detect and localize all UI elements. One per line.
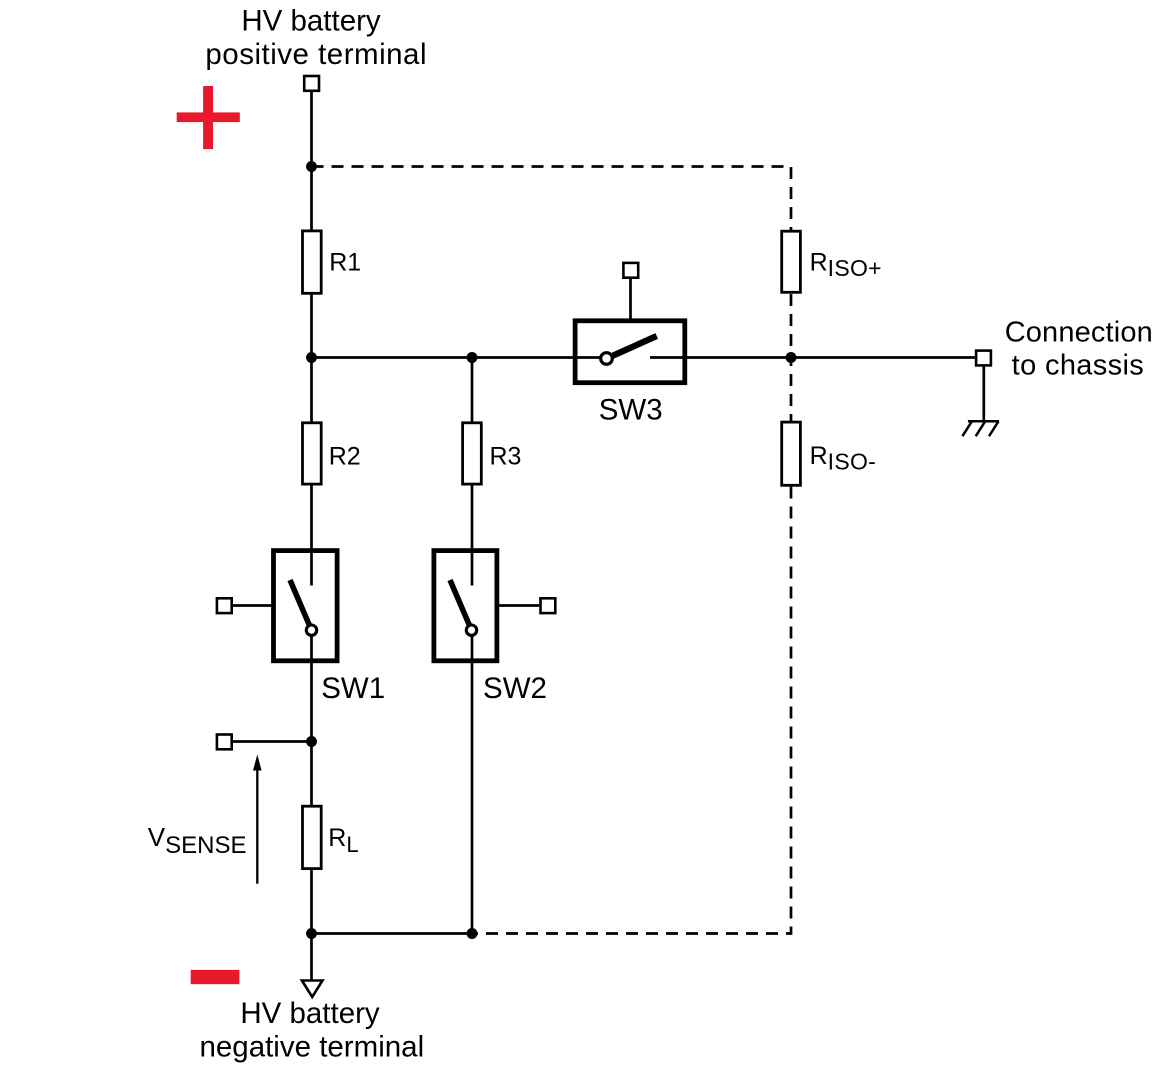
wire: SW2 movable contact to bottom rail <box>471 637 474 934</box>
minus symbol (red) <box>191 970 240 984</box>
switch SW1 box <box>274 551 338 661</box>
wire: SW1 movable contact to RL <box>310 637 313 807</box>
svg-text:SW3: SW3 <box>599 393 663 426</box>
switch SW1 contact circle <box>306 625 316 635</box>
negative terminal arrow (open triangle) <box>302 981 323 997</box>
wire: dashed RISO- to bottom rail <box>472 487 791 934</box>
resistor R1 <box>303 231 322 293</box>
Vsense arrow <box>253 755 262 884</box>
svg-text:SW1: SW1 <box>321 672 385 705</box>
resistor RL <box>303 806 322 868</box>
wire: RL to negative terminal arrow <box>310 869 313 981</box>
wire: R3 to SW2 fixed contact <box>471 485 474 586</box>
svg-text:to chassis: to chassis <box>1012 350 1144 382</box>
junction node: positive rail / RISO+ branch <box>306 161 317 172</box>
switch SW3 box <box>575 321 685 383</box>
wire: main horizontal rail left of SW3 <box>312 356 601 359</box>
svg-text:R3: R3 <box>490 442 522 470</box>
label: HV battery positive terminal <box>205 5 427 72</box>
label: Connection to chassis <box>1005 317 1153 382</box>
wire: node B to R3 <box>471 358 474 423</box>
wire: chassis terminal to ground <box>982 366 985 421</box>
wire: SW3 control stub <box>629 278 632 318</box>
wire: positive terminal to R1 <box>310 92 313 230</box>
svg-text:R2: R2 <box>329 442 361 470</box>
svg-text:R1: R1 <box>329 249 361 277</box>
svg-text:Connection: Connection <box>1005 317 1153 349</box>
wire: dashed isolation path top <box>312 167 792 231</box>
switch SW1 lever <box>290 580 310 626</box>
label: HV battery negative terminal <box>199 997 424 1064</box>
switch SW3 contact circle <box>601 353 613 365</box>
terminal square: SW2 control <box>541 598 556 613</box>
switch SW2 box <box>434 551 497 661</box>
switch SW2 lever <box>450 580 470 626</box>
resistor R3 <box>463 423 482 484</box>
svg-text:positive terminal: positive terminal <box>205 38 427 71</box>
svg-text:RISO+: RISO+ <box>810 249 882 282</box>
switch SW2 contact circle <box>466 625 476 635</box>
resistor RISO+ <box>782 231 801 292</box>
junction node: bottom rail SW2 <box>467 928 478 939</box>
wire: R2 to SW1 fixed contact <box>310 485 313 586</box>
terminal square: HV battery positive <box>304 76 319 91</box>
svg-text:RL: RL <box>328 824 358 857</box>
junction node: bottom rail left <box>306 928 317 939</box>
switch SW3 lever <box>612 336 657 356</box>
junction node: Vsense tap <box>306 736 317 747</box>
wire: SW1 control stub <box>232 604 271 607</box>
terminal square: chassis connection <box>976 351 991 366</box>
svg-text:negative terminal: negative terminal <box>199 1031 424 1064</box>
wire: dashed RISO+ to node C <box>790 294 793 421</box>
terminal square: SW1 control <box>217 598 232 613</box>
junction node: R1-R2 / horizontal rail <box>306 352 317 363</box>
wire: SW2 control stub <box>499 604 539 607</box>
wire: bottom rail solid <box>312 932 473 935</box>
svg-text:SW2: SW2 <box>483 672 547 705</box>
wire: Vsense tap <box>233 740 312 743</box>
plus symbol (red) <box>177 86 240 149</box>
svg-text:RISO-: RISO- <box>810 442 877 475</box>
terminal square: SW3 control <box>623 263 638 278</box>
junction node: R3 branch <box>467 352 478 363</box>
ground symbol: chassis <box>962 421 999 436</box>
svg-text:HV battery: HV battery <box>240 997 380 1030</box>
terminal square: Vsense tap <box>217 735 232 750</box>
svg-text:HV battery: HV battery <box>241 5 381 38</box>
junction node: RISO branch on horizontal rail <box>786 352 797 363</box>
wire: SW3 right contact to chassis terminal <box>650 356 975 359</box>
svg-text:VSENSE: VSENSE <box>148 822 247 859</box>
resistor RISO- <box>782 422 801 485</box>
wire: R1 to R2 <box>310 294 313 422</box>
resistor R2 <box>303 423 322 484</box>
